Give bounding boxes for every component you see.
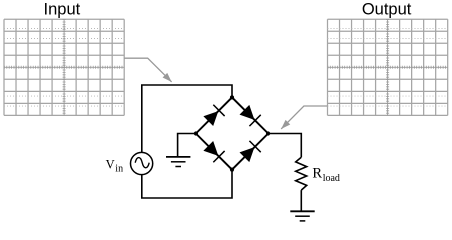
- svg-text:load: load: [323, 173, 340, 184]
- svg-text:Output: Output: [362, 1, 412, 19]
- svg-text:V: V: [106, 157, 115, 171]
- svg-text:in: in: [115, 163, 123, 174]
- svg-text:R: R: [312, 166, 322, 182]
- svg-text:Input: Input: [44, 1, 81, 19]
